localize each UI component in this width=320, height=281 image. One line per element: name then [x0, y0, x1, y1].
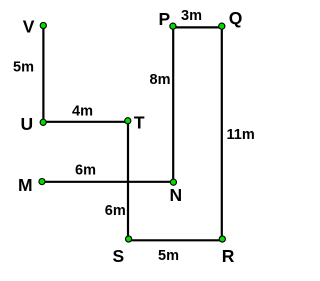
node R	[219, 236, 225, 242]
svg-text:6m: 6m	[75, 163, 96, 179]
wire T-S	[127, 121, 129, 240]
svg-text:P: P	[159, 9, 171, 29]
svg-text:4m: 4m	[72, 104, 93, 120]
wire P-Q	[173, 26, 222, 28]
svg-text:V: V	[23, 17, 35, 37]
svg-text:R: R	[222, 246, 235, 266]
wire U-T	[42, 121, 129, 123]
svg-text:N: N	[170, 185, 183, 205]
svg-text:8m: 8m	[150, 72, 171, 88]
svg-text:3m: 3m	[181, 8, 202, 24]
svg-text:U: U	[21, 114, 34, 134]
wire S-R	[128, 239, 222, 241]
svg-text:5m: 5m	[13, 60, 34, 76]
svg-text:S: S	[113, 246, 125, 266]
node M	[39, 179, 45, 185]
node T	[125, 118, 131, 124]
svg-text:Q: Q	[229, 8, 243, 28]
node U	[40, 119, 46, 125]
node S	[126, 236, 132, 242]
svg-text:M: M	[18, 175, 33, 195]
svg-text:6m: 6m	[105, 203, 126, 219]
node P	[170, 23, 176, 29]
svg-text:11m: 11m	[227, 127, 255, 143]
node Q	[219, 23, 225, 29]
node V	[40, 22, 46, 28]
wire M-N	[42, 181, 173, 183]
wire P-N	[172, 26, 174, 182]
node N	[170, 179, 176, 185]
wire V-U	[42, 25, 44, 122]
wire Q-R	[221, 26, 223, 241]
svg-text:T: T	[134, 113, 145, 133]
svg-text:5m: 5m	[158, 248, 179, 264]
